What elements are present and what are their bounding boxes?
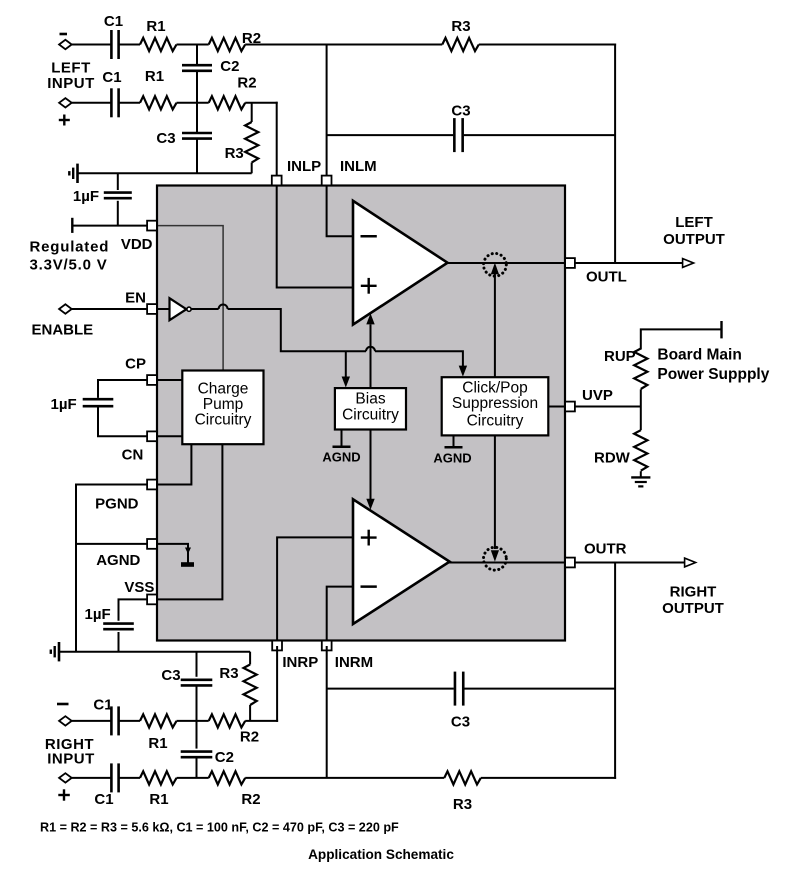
svg-text:1µF: 1µF <box>51 396 77 413</box>
ground (divider) <box>631 476 650 478</box>
wire bias to U2 <box>370 430 372 501</box>
wire VDD <box>72 225 148 227</box>
wire VDD internal (to charge pump) <box>158 226 223 370</box>
arrow into bias box <box>342 377 350 388</box>
svg-text:Circuitry: Circuitry <box>195 412 252 429</box>
wire AGND external <box>76 543 148 545</box>
wire row3: R1 to R2 <box>177 720 209 722</box>
inverter (EN buffer) <box>170 298 187 320</box>
pin VSS <box>147 595 157 605</box>
pin VDD <box>147 221 157 231</box>
wire row4: R3 to feedback corner <box>481 777 616 779</box>
wire ENABLE <box>72 308 148 310</box>
capacitor C1 (left +, plates) <box>110 88 113 117</box>
wire EN route hop over bias line <box>366 347 375 352</box>
op-amp U2 (right channel) <box>353 499 450 624</box>
pin CN <box>147 431 157 441</box>
wire charge pump to PGND <box>148 444 191 484</box>
wire VSS cap to ground <box>118 632 120 652</box>
svg-text:EN: EN <box>125 290 146 307</box>
wire INRM vertical (pin down to row4) <box>326 646 328 778</box>
wire CN to charge pump <box>148 435 182 437</box>
svg-text:1µF: 1µF <box>85 606 111 623</box>
svg-text:OUTPUT: OUTPUT <box>663 231 725 248</box>
wire row2: C1 to R1 <box>119 102 140 104</box>
ground AGND (bias) <box>341 430 343 447</box>
svg-text:R1: R1 <box>149 791 168 808</box>
pin OUTR <box>565 558 575 568</box>
svg-text:R3: R3 <box>219 665 238 682</box>
svg-text:INLM: INLM <box>340 158 377 175</box>
capacitor C2 (bottom, vertical shunt) <box>196 721 198 749</box>
svg-text:R1: R1 <box>146 18 165 35</box>
wire row4: R2 to INRM junction to R3 <box>245 777 444 779</box>
op-amp U2 minus sign <box>361 585 377 588</box>
ground (bottom-left) <box>58 642 61 661</box>
svg-text:RUP: RUP <box>604 348 636 365</box>
capacitor C1 (left -, plates) <box>110 30 113 59</box>
label + (left input plus) <box>59 119 70 121</box>
wire EN pin to inverter <box>148 308 170 310</box>
label + (right input plus) <box>58 794 70 796</box>
resistor R1 (right +) <box>140 771 177 784</box>
resistor R2 (right +) <box>209 771 246 784</box>
arrow sense left (up) <box>491 263 499 274</box>
op-amp U1 (left channel) <box>353 201 448 325</box>
wire row1: R2 to INLM node to R3 <box>245 44 442 46</box>
capacitor C3 (left shunt to gnd) <box>196 103 198 133</box>
wire click/pop to OUTL sense <box>494 273 496 377</box>
wire VSS external <box>119 599 149 620</box>
wire INLP to U1 noninverting input <box>277 180 352 288</box>
resistor RUP <box>634 349 647 390</box>
wire C3-top left segment <box>327 134 454 136</box>
svg-text:R3: R3 <box>225 145 244 162</box>
arrow bias to U1 (up) <box>366 313 374 324</box>
svg-text:C3: C3 <box>451 714 470 731</box>
svg-text:VSS: VSS <box>124 579 154 596</box>
wire RDW to ground <box>640 471 642 477</box>
capacitor 1uF (VDD bypass) <box>117 173 119 190</box>
wire INRP to U2 noninverting input <box>277 537 352 646</box>
wire CP external <box>98 380 148 398</box>
wire charge pump to VSS <box>148 444 222 599</box>
wire row4: C1 to R1 <box>119 777 140 779</box>
svg-text:OUTL: OUTL <box>586 269 627 286</box>
svg-text:R1: R1 <box>148 735 167 752</box>
terminal Regulated supply (bar) <box>71 218 73 233</box>
svg-text:UVP: UVP <box>582 387 613 404</box>
wire row1: R3 to feedback corner <box>479 44 616 46</box>
svg-text:C3: C3 <box>451 103 470 120</box>
capacitor C3 (bottom feedback, plates) <box>454 672 457 706</box>
wire row2: R2 to INLP corner <box>245 102 278 104</box>
arrow LEFT OUTPUT <box>683 259 694 268</box>
wire feedback vertical (bottom) <box>614 563 616 779</box>
svg-text:ENABLE: ENABLE <box>32 322 94 339</box>
svg-text:Board Main: Board Main <box>657 347 741 364</box>
svg-text:C1: C1 <box>102 69 121 86</box>
wire CP to charge pump <box>148 379 182 381</box>
arrow AGND internal <box>185 548 191 555</box>
wire INLM to U1 inverting input <box>327 180 352 236</box>
resistor R3 (left feedback) <box>442 38 479 51</box>
arrow RIGHT OUTPUT <box>685 558 696 567</box>
wire INRM to U2 inverting input <box>327 587 352 646</box>
wire bias to U1 <box>370 325 372 389</box>
wire U1 output <box>447 262 571 264</box>
terminal LEFT INPUT + (diamond) <box>59 98 72 107</box>
wire PGND external <box>76 485 148 652</box>
capacitor C3 (bottom shunt to gnd) <box>196 652 198 677</box>
wire C3-bottom right segment <box>464 688 615 690</box>
svg-text:INLP: INLP <box>287 158 321 175</box>
resistor R1 (left -) <box>140 38 177 51</box>
pin CP <box>147 375 157 385</box>
wire RUP to board supply <box>641 329 722 349</box>
svg-text:C3: C3 <box>161 667 180 684</box>
svg-text:INPUT: INPUT <box>47 75 95 92</box>
svg-text:R2: R2 <box>240 729 259 746</box>
resistor R3 (left, to gnd) <box>251 103 253 122</box>
arrow into click/pop box <box>459 366 467 377</box>
wire feedback vertical (top) <box>614 44 616 264</box>
svg-text:Application Schematic: Application Schematic <box>308 847 454 862</box>
pin INLP <box>272 176 282 186</box>
wire click/pop to OUTR sense <box>494 435 496 549</box>
svg-text:C1: C1 <box>93 697 112 714</box>
svg-text:Pump: Pump <box>203 396 244 413</box>
svg-text:R1: R1 <box>145 68 164 85</box>
current sense circle (right, dashed) <box>484 547 507 570</box>
wire C3-top right segment <box>464 134 615 136</box>
op-amp U1 plus sign <box>361 285 377 287</box>
wire row3: C1 to R1 <box>119 720 140 722</box>
resistor R1 (left +) <box>140 96 177 109</box>
wire INLM vertical (row1 down to pin) <box>326 44 328 176</box>
capacitor C1 (right -, plates) <box>110 706 113 735</box>
capacitor C3 (top feedback, plates) <box>453 118 456 152</box>
terminal RIGHT INPUT + (diamond) <box>59 773 72 782</box>
label - (right input minus) <box>57 703 69 706</box>
block Charge Pump Circuitry <box>182 371 263 445</box>
label - (left input minus) <box>60 33 68 36</box>
svg-text:Circuitry: Circuitry <box>467 413 524 430</box>
svg-text:R2: R2 <box>237 75 256 92</box>
pin UVP <box>565 402 575 412</box>
wire row4: R1 to R2 <box>177 777 209 779</box>
svg-text:OUTR: OUTR <box>584 541 627 558</box>
resistor R2 (right -) <box>209 714 246 727</box>
capacitor C2 (left, vertical shunt) <box>196 45 198 66</box>
svg-text:RIGHT: RIGHT <box>670 584 717 601</box>
svg-text:PGND: PGND <box>95 496 139 513</box>
capacitor 1uF (VSS) <box>103 622 134 625</box>
svg-text:C2: C2 <box>215 749 234 766</box>
svg-text:Bias: Bias <box>355 391 385 408</box>
svg-text:AGND: AGND <box>322 450 360 465</box>
svg-text:C3: C3 <box>156 130 175 147</box>
resistor RDW <box>634 430 647 471</box>
wire EN route to click/pop <box>375 351 463 372</box>
svg-text:R3: R3 <box>453 796 472 813</box>
wire top ground line <box>78 172 252 174</box>
resistor R1 (right -) <box>140 714 177 727</box>
wire UVP to divider <box>575 406 641 408</box>
pin AGND <box>147 539 157 549</box>
svg-text:AGND: AGND <box>96 552 140 569</box>
wire row2: R1 to R2 <box>177 102 209 104</box>
svg-text:R1 = R2 = R3 = 5.6 kΩ, C1 = 10: R1 = R2 = R3 = 5.6 kΩ, C1 = 100 nF, C2 =… <box>40 821 399 835</box>
terminal RIGHT INPUT - (diamond) <box>59 716 72 725</box>
svg-text:CP: CP <box>125 356 146 373</box>
wire bottom ground line <box>59 651 250 653</box>
wire CN external <box>98 408 148 437</box>
svg-text:LEFT: LEFT <box>51 60 91 77</box>
terminal ENABLE (diamond) <box>59 304 72 313</box>
wire row1: diamond to C1 <box>72 44 112 46</box>
resistor R3 (bottom, to gnd) <box>249 652 251 665</box>
svg-text:CN: CN <box>122 447 144 464</box>
pin INLM <box>322 176 332 186</box>
arrow bias to U2 (down) <box>366 499 374 510</box>
op-amp U2 plus sign <box>361 536 377 538</box>
op-amp U1 minus sign <box>361 235 377 238</box>
wire U2 output <box>449 562 571 564</box>
wire OUTR to output <box>575 562 685 564</box>
svg-text:AGND: AGND <box>433 451 471 466</box>
svg-text:C1: C1 <box>104 13 123 30</box>
svg-text:INRM: INRM <box>335 654 373 671</box>
capacitor 1uF (charge pump) <box>83 398 114 401</box>
resistor R3 (bottom feedback) <box>444 771 481 784</box>
svg-text:3.3V/5.0 V: 3.3V/5.0 V <box>30 257 108 274</box>
svg-text:Charge: Charge <box>198 381 249 398</box>
wire row1: R1 to R2 (junction at C2) <box>177 44 209 46</box>
ground (top-left) <box>76 164 79 183</box>
wire row3: R2 to INRP corner <box>245 720 278 722</box>
ground AGND (click/pop) <box>453 435 455 447</box>
terminal Board Main Power Supply (bar) <box>720 321 722 338</box>
block Click/Pop Suppression Circuitry <box>442 377 549 435</box>
wire EN branch to bias box <box>345 351 347 383</box>
svg-text:C1: C1 <box>94 791 113 808</box>
pin EN <box>147 304 157 314</box>
svg-text:R3: R3 <box>451 18 470 35</box>
svg-text:INRP: INRP <box>282 654 318 671</box>
svg-text:Click/Pop: Click/Pop <box>462 380 527 397</box>
resistor R2 (left -) <box>209 38 246 51</box>
svg-text:R2: R2 <box>241 791 260 808</box>
pin INRM <box>322 641 332 651</box>
wire click/pop to UVP <box>548 406 570 408</box>
svg-text:C2: C2 <box>220 58 239 75</box>
wire row2: diamond to C1 <box>72 102 112 104</box>
wire divider to RDW <box>640 407 642 431</box>
arrow sense right (down) <box>491 550 499 561</box>
wire RUP top to supply <box>640 389 642 406</box>
svg-text:Suppression: Suppression <box>452 395 538 412</box>
IC body (shaded block) <box>157 186 565 641</box>
svg-text:Power Suppply: Power Suppply <box>657 366 769 383</box>
wire row3: diamond to C1 <box>72 720 112 722</box>
svg-text:INPUT: INPUT <box>47 751 95 768</box>
wire OUTL to output <box>575 262 683 264</box>
svg-text:LEFT: LEFT <box>675 214 713 231</box>
current sense circle (left, dashed) <box>484 253 507 276</box>
svg-text:1µF: 1µF <box>73 188 99 205</box>
svg-text:RDW: RDW <box>594 450 631 467</box>
wire INRP vertical (pin down to row3) <box>276 646 278 722</box>
wire row4: diamond to C1 <box>72 777 112 779</box>
wire AGND internal <box>148 544 188 563</box>
block Bias Circuitry <box>335 388 406 429</box>
svg-text:OUTPUT: OUTPUT <box>662 600 724 617</box>
svg-text:Circuitry: Circuitry <box>342 407 399 424</box>
wire INLP vertical (row2 down to pin) <box>276 102 278 176</box>
wire EN route with hop over VDD line <box>191 308 218 310</box>
wire row1: C1 to R1 <box>119 44 140 46</box>
pin INRP <box>272 641 282 651</box>
ground AGND internal bar <box>181 562 194 567</box>
terminal LEFT INPUT - (diamond) <box>59 40 72 49</box>
resistor R2 (left +) <box>209 96 246 109</box>
svg-text:Regulated: Regulated <box>30 239 110 256</box>
pin PGND <box>147 480 157 490</box>
svg-text:VDD: VDD <box>121 236 153 253</box>
wire C3-bottom left segment <box>327 688 454 690</box>
capacitor C1 (right +, plates) <box>110 763 113 792</box>
pin OUTL <box>565 258 575 268</box>
